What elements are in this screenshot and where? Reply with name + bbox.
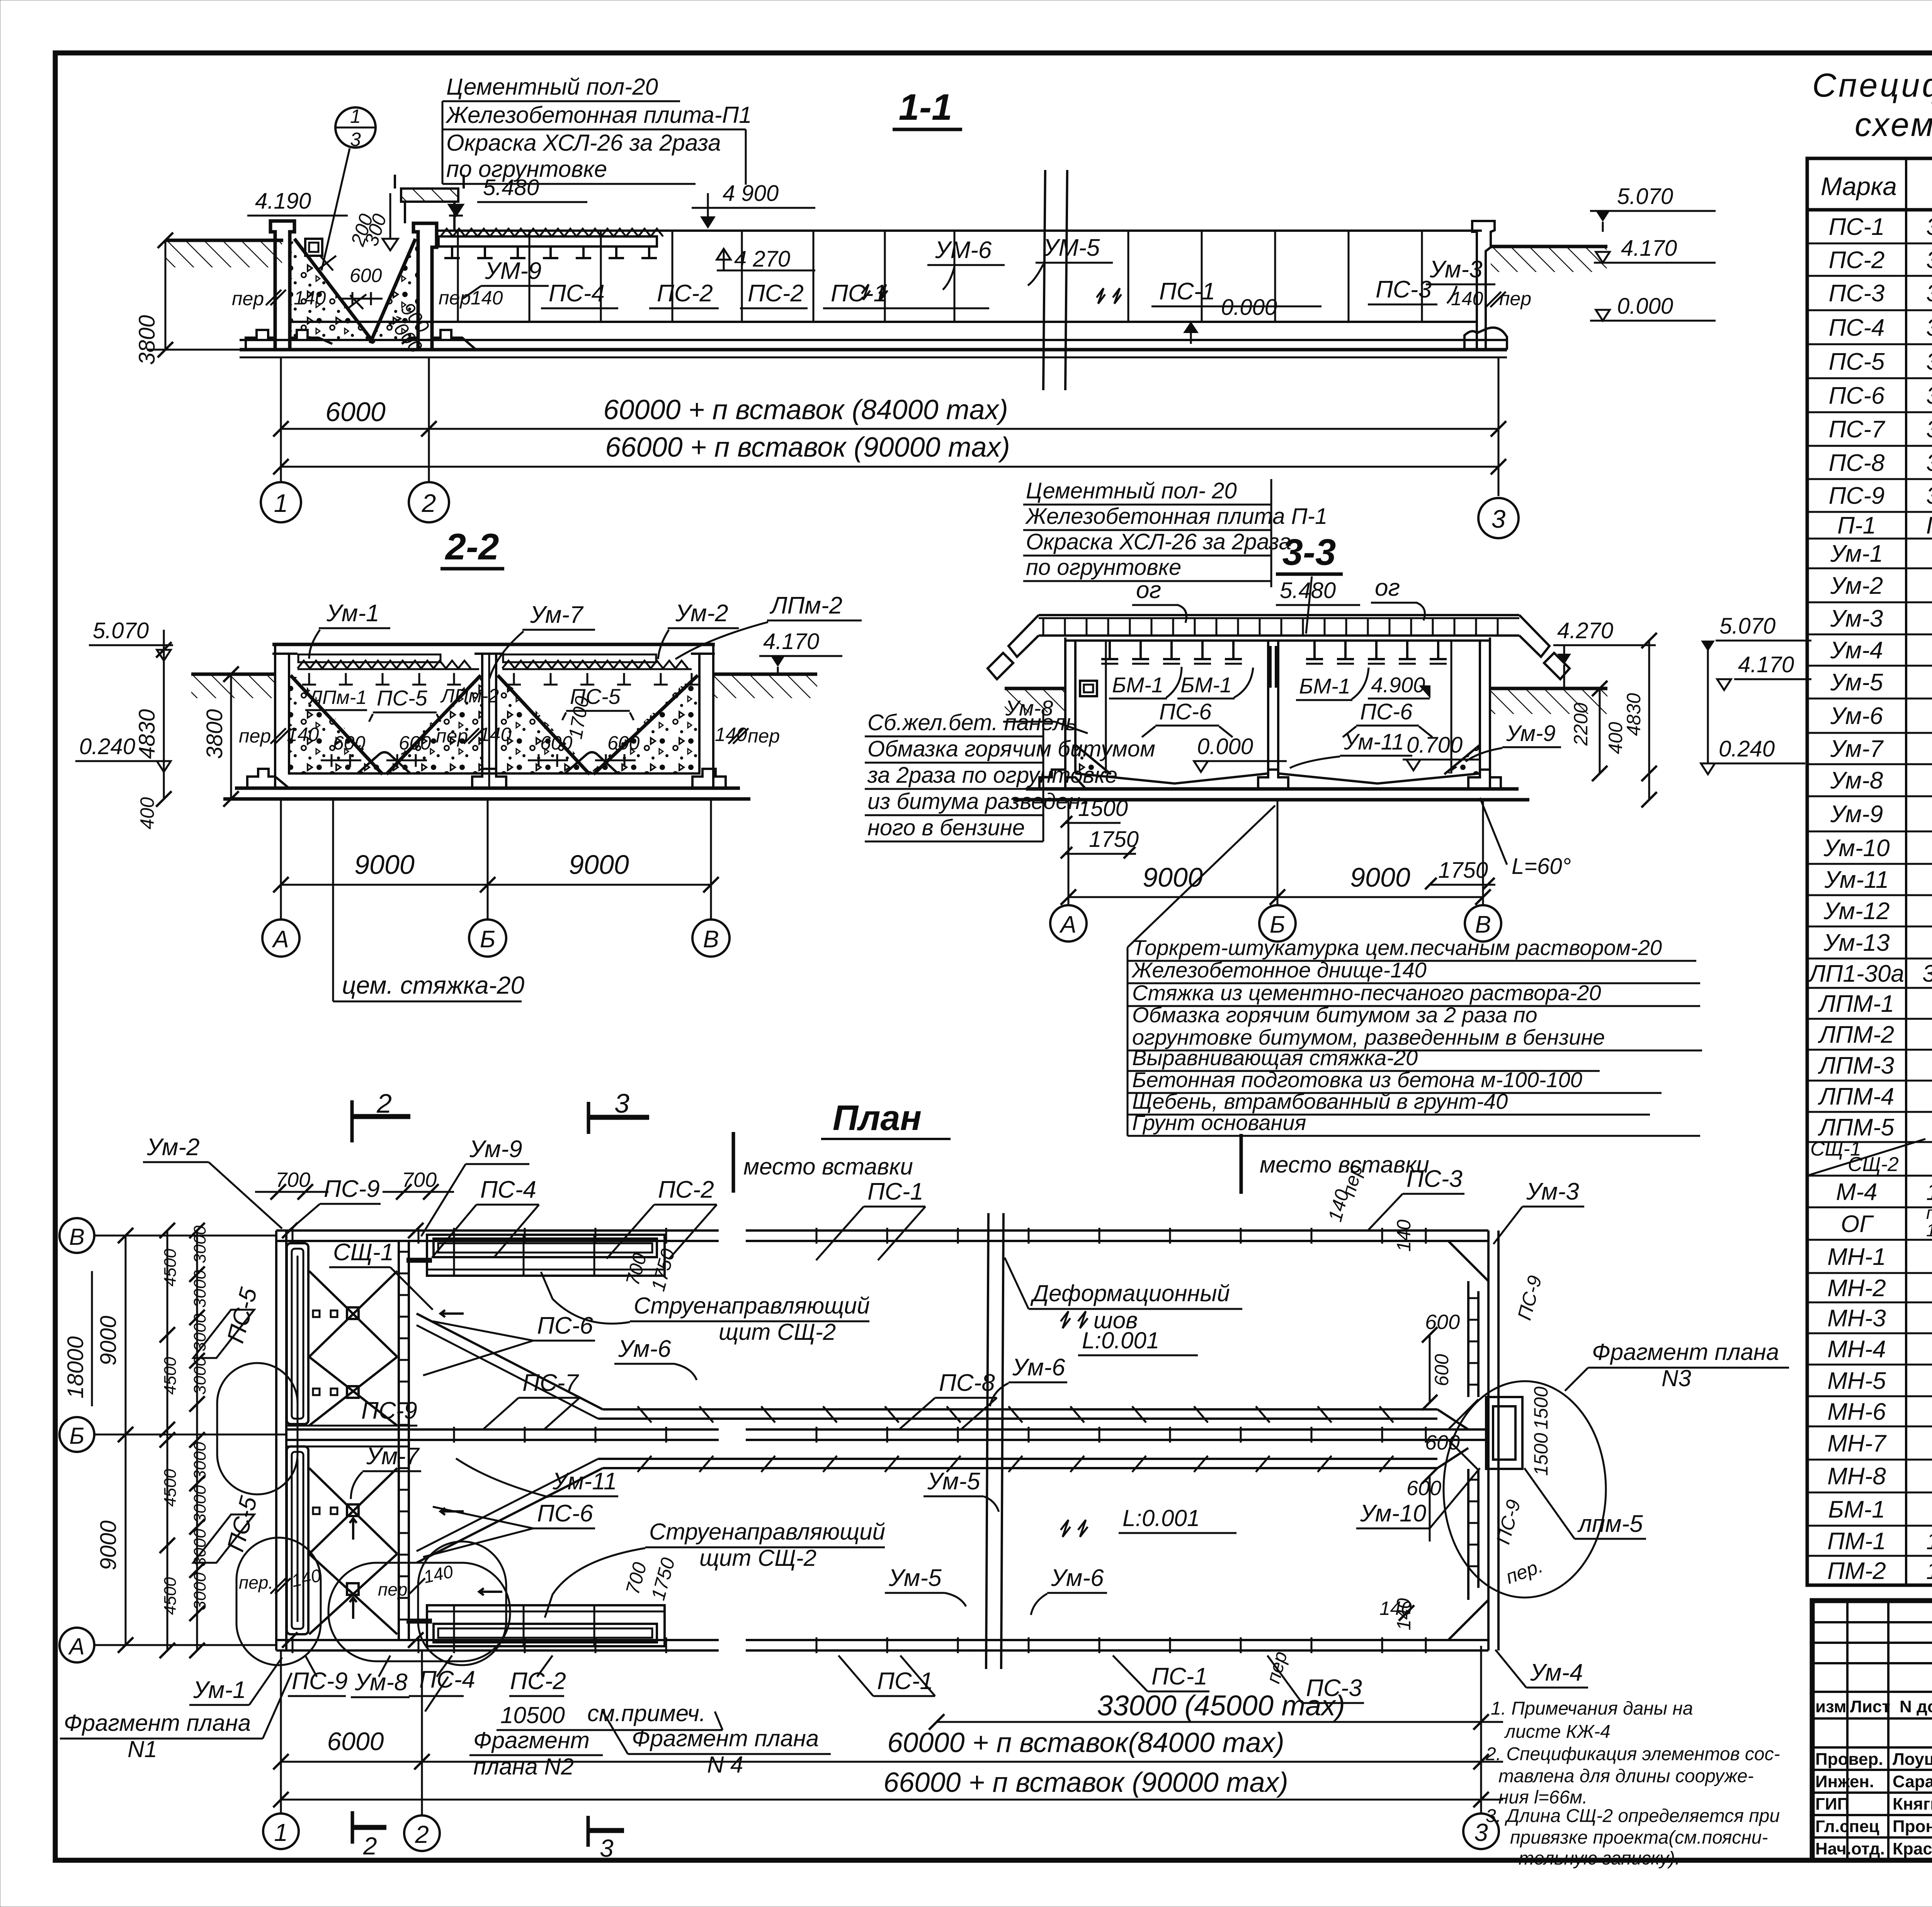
plan axis circles 1 and 2 xyxy=(263,1650,440,1851)
svg-text:140: 140 xyxy=(287,724,319,745)
table row Ум-8 xyxy=(1830,767,1932,794)
2-2 elevation 4.170 right xyxy=(759,629,842,675)
table row ЛПМ-2 xyxy=(1818,1021,1932,1048)
table row МН-6 xyxy=(1827,1399,1932,1425)
table row ПС-7 xyxy=(1829,416,1932,443)
plan small dims near SCh rect ends xyxy=(622,1246,679,1603)
table row Ум-11 xyxy=(1824,867,1932,893)
table row ПМ-1 xyxy=(1827,1521,1932,1556)
table row Ум-9 xyxy=(1830,801,1932,828)
floor layers list xyxy=(1128,806,1702,1136)
svg-text:3000: 3000 xyxy=(190,1529,209,1567)
svg-text:П-1: П-1 xyxy=(1837,512,1876,539)
svg-text:Ум-2: Ум-2 xyxy=(1830,573,1883,599)
svg-text:ПС-6: ПС-6 xyxy=(537,1312,593,1339)
svg-text:Фрагмент плана: Фрагмент плана xyxy=(1592,1339,1779,1365)
svg-text:ПС-2: ПС-2 xyxy=(748,280,804,307)
svg-text:ЛПм-1: ЛПм-1 xyxy=(308,687,367,708)
svg-text:ОГ: ОГ xyxy=(1841,1211,1874,1237)
svg-text:9000: 9000 xyxy=(354,850,415,880)
svg-text:по огрунтовке: по огрунтовке xyxy=(1026,555,1181,580)
svg-text:3.900-2: 3.900-2 xyxy=(1926,280,1932,307)
svg-text:140: 140 xyxy=(1393,1219,1415,1252)
svg-text:пер: пер xyxy=(439,287,471,309)
table row Ум-3 xyxy=(1830,605,1932,632)
plan right inner ladder walls xyxy=(1468,1281,1478,1600)
svg-text:ПС-1: ПС-1 xyxy=(867,1178,923,1205)
svg-text:4.270: 4.270 xyxy=(1557,618,1613,643)
svg-text:3.900-2 Вып.6: 3.900-2 Вып.6 xyxy=(1922,960,1932,987)
3-3 bottom small dims xyxy=(1061,796,1571,889)
plan bottom dimension lines xyxy=(273,1689,1503,1807)
svg-text:плана N2: плана N2 xyxy=(473,1754,574,1780)
svg-text:ЛПМ-3: ЛПМ-3 xyxy=(1818,1052,1894,1079)
table row ЛПМ-3 xyxy=(1818,1052,1932,1079)
2-2 floor and base slab xyxy=(223,769,750,799)
svg-text:ог: ог xyxy=(1375,574,1400,601)
svg-text:ПС-5: ПС-5 xyxy=(377,686,428,710)
svg-text:ЛПМ-5: ЛПМ-5 xyxy=(1818,1114,1895,1141)
svg-text:МН-4: МН-4 xyxy=(1827,1336,1886,1363)
svg-text:3. Длина СЩ-2 определяется при: 3. Длина СЩ-2 определяется при xyxy=(1486,1806,1780,1826)
left outer wall xyxy=(270,221,322,350)
table row ПС-4 xyxy=(1829,314,1932,341)
svg-text:Грунт основания: Грунт основания xyxy=(1132,1110,1306,1135)
plan bottom labels xyxy=(60,1649,1588,1780)
svg-text:140: 140 xyxy=(1379,1598,1412,1619)
serrated top plate with supports xyxy=(439,229,663,258)
svg-text:Бетонная подготовка из бетона: Бетонная подготовка из бетона м-100-100 xyxy=(1132,1067,1582,1092)
left compartment hopper slopes with concrete fill xyxy=(291,239,418,343)
plan lower basin labels xyxy=(351,1443,1646,1618)
svg-text:МН-8: МН-8 xyxy=(1827,1463,1886,1490)
svg-text:пер: пер xyxy=(436,725,468,747)
svg-text:ПС-5: ПС-5 xyxy=(222,1285,262,1346)
svg-text:4.170: 4.170 xyxy=(1621,236,1677,261)
svg-text:ПС-1: ПС-1 xyxy=(1151,1663,1207,1690)
svg-text:ПС-3: ПС-3 xyxy=(1306,1675,1362,1701)
svg-text:Ум-7: Ум-7 xyxy=(1830,736,1884,762)
table header row xyxy=(1821,163,1932,210)
svg-text:1: 1 xyxy=(350,105,361,127)
table row ПС-3 xyxy=(1829,280,1932,307)
svg-text:ЛПМ-4: ЛПМ-4 xyxy=(1818,1083,1894,1110)
svg-text:ПС-9: ПС-9 xyxy=(324,1176,380,1202)
svg-text:ПС-6: ПС-6 xyxy=(1360,699,1413,724)
panel note text block right of 2-2 xyxy=(865,710,1155,841)
left ground line with hatch xyxy=(166,240,283,267)
svg-text:пер: пер xyxy=(1499,288,1531,309)
svg-text:Ум-3: Ум-3 xyxy=(1830,605,1883,632)
svg-text:1500: 1500 xyxy=(1530,1387,1552,1429)
svg-text:Ум-8: Ум-8 xyxy=(1830,767,1883,794)
svg-text:ПС-8: ПС-8 xyxy=(939,1370,995,1396)
svg-text:Стяжка из цементно-песчаного р: Стяжка из цементно-песчаного раствора-20 xyxy=(1132,981,1601,1005)
plan top labels xyxy=(143,1134,1584,1260)
svg-text:ЛПм-2: ЛПм-2 xyxy=(440,685,499,707)
svg-text:МН-3: МН-3 xyxy=(1827,1305,1886,1332)
svg-text:2. Спецификация элементов сос-: 2. Спецификация элементов сос- xyxy=(1485,1744,1780,1764)
svg-text:N докум: N докум xyxy=(1900,1697,1932,1716)
svg-text:1. Примечания даны на: 1. Примечания даны на xyxy=(1491,1698,1693,1719)
table row Ум-4 xyxy=(1830,637,1932,664)
2-2 serrated launders xyxy=(298,654,692,669)
table row Ум-10 xyxy=(1823,835,1932,862)
svg-text:Ум-1: Ум-1 xyxy=(326,600,379,627)
svg-text:ог: ог xyxy=(1136,577,1161,603)
svg-text:9000: 9000 xyxy=(1350,862,1410,892)
plan bottom section marks 2 and 3 xyxy=(352,1811,624,1862)
svg-text:пер: пер xyxy=(748,725,780,747)
svg-text:5.070: 5.070 xyxy=(1617,184,1673,209)
2-2 ground left xyxy=(191,674,275,698)
svg-text:9000: 9000 xyxy=(96,1520,121,1570)
section 1-1 title xyxy=(893,87,962,129)
svg-text:Ум-4: Ум-4 xyxy=(1530,1659,1583,1686)
svg-text:3000: 3000 xyxy=(190,1572,209,1610)
table row БМ-1 xyxy=(1828,1489,1932,1526)
svg-text:Железобетонная плита П-1: Железобетонная плита П-1 xyxy=(1025,504,1327,529)
plan title xyxy=(821,1098,951,1139)
table row Ум-13 xyxy=(1823,930,1932,956)
svg-text:66000 + п вставок (90000 max): 66000 + п вставок (90000 max) xyxy=(883,1767,1288,1798)
right ground line with hatch xyxy=(1491,246,1607,272)
svg-text:УМ-9: УМ-9 xyxy=(485,258,541,284)
svg-text:60000 + п вставок(84000 max): 60000 + п вставок(84000 max) xyxy=(887,1727,1284,1758)
svg-text:Ум-1: Ум-1 xyxy=(193,1677,246,1703)
svg-text:ПС-3: ПС-3 xyxy=(1829,280,1885,307)
plan corner diagonals xyxy=(1448,1241,1488,1640)
svg-text:3.900-2: 3.900-2 xyxy=(1926,416,1932,443)
2-2 tank outline walls xyxy=(272,644,715,788)
svg-text:5.480: 5.480 xyxy=(483,175,539,200)
plan wall joint ticks xyxy=(282,1223,1426,1653)
svg-text:Обмазка горячим битумом за 2 р: Обмазка горячим битумом за 2 раза по xyxy=(1132,1003,1537,1027)
svg-text:600: 600 xyxy=(333,732,366,754)
1-1 dimension lines xyxy=(261,357,1519,538)
svg-text:Выравнивающая стяжка-20: Выравнивающая стяжка-20 xyxy=(1132,1045,1418,1070)
svg-text:пер: пер xyxy=(239,725,271,747)
svg-text:Марка: Марка xyxy=(1821,172,1897,201)
table row Ум-7 xyxy=(1830,736,1932,762)
svg-text:1: 1 xyxy=(274,489,288,517)
svg-text:ПС-5: ПС-5 xyxy=(1829,348,1885,375)
table row Ум-12 xyxy=(1823,898,1932,925)
2-2 ground right xyxy=(713,674,817,698)
right wall xyxy=(1464,221,1507,350)
svg-text:СЩ-1: СЩ-1 xyxy=(333,1239,394,1266)
svg-text:Ум-10: Ум-10 xyxy=(1823,835,1889,862)
table row ОГ xyxy=(1841,1203,1932,1240)
svg-text:3: 3 xyxy=(614,1088,629,1118)
svg-text:тавлена для длины сооруже-: тавлена для длины сооруже- xyxy=(1498,1766,1754,1786)
svg-text:N3: N3 xyxy=(1662,1365,1691,1391)
svg-text:Фрагмент: Фрагмент xyxy=(473,1727,590,1753)
plan flow shields SCh-2 rectangles xyxy=(427,1235,665,1646)
svg-text:В: В xyxy=(703,926,719,953)
svg-text:1.459-2: 1.459-2 xyxy=(1926,1179,1932,1205)
svg-text:пер: пер xyxy=(378,1579,407,1599)
svg-text:Ум-2: Ум-2 xyxy=(675,600,728,627)
plan right 600 dims xyxy=(1379,1219,1552,1630)
svg-text:ПМ-2: ПМ-2 xyxy=(1827,1558,1886,1584)
elevation 4.190 xyxy=(247,189,398,250)
svg-text:N1: N1 xyxy=(128,1736,157,1762)
svg-text:4.900: 4.900 xyxy=(1371,673,1425,697)
plan small per/140 labels bottom xyxy=(239,1561,455,1599)
svg-text:Деформационный: Деформационный xyxy=(1030,1280,1230,1306)
table row М-4 xyxy=(1836,1179,1932,1205)
svg-text:ного в бензине: ного в бензине xyxy=(867,815,1025,840)
plan basin interior walls xyxy=(417,1314,1468,1563)
svg-text:ЛПМ-2: ЛПМ-2 xyxy=(1818,1021,1894,1048)
svg-text:1750: 1750 xyxy=(647,1555,679,1603)
plan fragment ellipses xyxy=(217,1363,510,1665)
table row МН-4 xyxy=(1827,1336,1932,1363)
svg-text:ния l=66м.: ния l=66м. xyxy=(1498,1787,1587,1808)
svg-text:ПМ-1: ПМ-1 xyxy=(1827,1528,1886,1555)
plan left vertical dimension lines xyxy=(63,1223,209,1658)
svg-text:Торкрет-штукатурка цем.песчаны: Торкрет-штукатурка цем.песчаным растворо… xyxy=(1132,935,1662,960)
svg-text:ПС-9: ПС-9 xyxy=(361,1397,417,1424)
plan outer walls xyxy=(276,1231,1498,1650)
svg-text:пер: пер xyxy=(232,288,264,309)
svg-text:Струенаправляющий: Струенаправляющий xyxy=(649,1519,885,1545)
section 3-3 title xyxy=(1276,532,1360,605)
svg-text:3: 3 xyxy=(350,129,361,150)
table row МН-3 xyxy=(1827,1305,1932,1332)
svg-text:изм: изм xyxy=(1815,1697,1846,1716)
svg-text:140: 140 xyxy=(422,1561,455,1587)
svg-text:600: 600 xyxy=(399,732,431,754)
svg-text:ПС-1: ПС-1 xyxy=(1159,278,1215,305)
svg-text:3-3: 3-3 xyxy=(1282,532,1336,573)
table row СЩ xyxy=(1807,1136,1932,1176)
svg-text:Фрагмент плана: Фрагмент плана xyxy=(64,1710,251,1736)
svg-text:2: 2 xyxy=(376,1088,392,1118)
svg-text:ПК-01-88: ПК-01-88 xyxy=(1926,512,1932,539)
table row МН-7 xyxy=(1827,1430,1932,1457)
plan outlet box right xyxy=(1444,1381,1606,1598)
svg-text:Гл.спец: Гл.спец xyxy=(1815,1817,1879,1836)
svg-text:3000: 3000 xyxy=(190,1442,209,1480)
svg-text:БМ-1: БМ-1 xyxy=(1828,1496,1885,1523)
og labels xyxy=(1132,574,1425,634)
svg-text:60000 + п вставок (84000 max): 60000 + п вставок (84000 max) xyxy=(603,394,1008,425)
elevation 4.900 xyxy=(692,181,815,229)
table row МН-2 xyxy=(1827,1275,1932,1302)
svg-text:Красавин: Красавин xyxy=(1893,1839,1932,1858)
3-3 roof slab with tiles xyxy=(988,615,1570,679)
svg-text:140: 140 xyxy=(294,287,326,309)
plan left block ladder wall xyxy=(399,1241,409,1640)
svg-text:Ум-11: Ум-11 xyxy=(552,1468,617,1495)
svg-text:Ум-5: Ум-5 xyxy=(888,1565,942,1591)
svg-text:Окраска ХСЛ-26 за 2раза: Окраска ХСЛ-26 за 2раза xyxy=(1026,529,1291,554)
svg-text:ПС-8: ПС-8 xyxy=(1829,450,1885,476)
svg-text:ПС-2: ПС-2 xyxy=(1829,247,1885,274)
svg-text:0.000: 0.000 xyxy=(1617,294,1673,319)
3-3 axis dims and circles xyxy=(1050,800,1501,942)
table row МН-8 xyxy=(1827,1463,1932,1490)
table row ПС-2 xyxy=(1829,247,1932,274)
svg-text:ПС-1: ПС-1 xyxy=(877,1668,933,1695)
table row ПС-1 xyxy=(1829,206,1932,243)
svg-text:Ум-9: Ум-9 xyxy=(1830,801,1883,828)
svg-text:Ум-13: Ум-13 xyxy=(1823,930,1889,956)
3-3 interior labels xyxy=(1003,667,1561,772)
svg-text:1500: 1500 xyxy=(1530,1433,1552,1476)
2-2 inner small dims xyxy=(239,694,780,767)
svg-text:4830: 4830 xyxy=(134,709,160,759)
second wall xyxy=(413,223,437,350)
svg-text:ПС-3: ПС-3 xyxy=(1376,276,1432,303)
svg-text:Саранча: Саранча xyxy=(1893,1772,1932,1791)
svg-text:Инжен.: Инжен. xyxy=(1815,1772,1874,1791)
svg-text:Ум-2: Ум-2 xyxy=(146,1134,200,1161)
plan right fragment label xyxy=(1565,1339,1789,1391)
svg-text:ЛПМ-1: ЛПМ-1 xyxy=(1818,991,1894,1017)
plan section marks 2 and 3 top xyxy=(352,1088,649,1142)
svg-text:ПС-4: ПС-4 xyxy=(549,280,605,307)
svg-text:10500: 10500 xyxy=(500,1702,565,1728)
svg-text:3000: 3000 xyxy=(190,1270,209,1308)
2-2 elevation 5.070 left xyxy=(89,618,173,661)
svg-text:2: 2 xyxy=(415,1820,429,1848)
svg-text:ПС-4: ПС-4 xyxy=(1829,314,1885,341)
table row ПМ-2 xyxy=(1827,1558,1932,1584)
svg-text:3.900-2: 3.900-2 xyxy=(1926,348,1932,375)
table row Ум-2 xyxy=(1830,573,1932,599)
cem styazhka label xyxy=(333,800,524,1001)
svg-text:ПС-5: ПС-5 xyxy=(570,684,621,709)
место вставки labels xyxy=(733,1132,1429,1194)
svg-text:0.700: 0.700 xyxy=(1406,733,1463,758)
svg-text:ПС-4: ПС-4 xyxy=(480,1176,536,1203)
vertical dim 3800 left xyxy=(134,233,247,365)
svg-text:Ум-8: Ум-8 xyxy=(1005,696,1053,720)
svg-text:Струенаправляющий: Струенаправляющий xyxy=(634,1293,870,1319)
3-3 ceiling and hanging beams xyxy=(1065,641,1490,664)
svg-text:ПС-6: ПС-6 xyxy=(1829,382,1885,409)
svg-text:2: 2 xyxy=(422,489,436,517)
svg-text:ПС-2: ПС-2 xyxy=(657,280,713,307)
svg-text:А: А xyxy=(68,1633,85,1659)
plan break lines deformation joint xyxy=(986,1213,1088,1669)
svg-text:схеме, расположенной на листе: схеме, расположенной на листе xyxy=(1855,106,1932,143)
tank floor and base slab xyxy=(240,322,1507,357)
svg-text:9000: 9000 xyxy=(96,1316,121,1365)
svg-text:2-2: 2-2 xyxy=(445,526,499,568)
3-3 floor and base xyxy=(1013,745,1529,800)
svg-text:0.000: 0.000 xyxy=(1197,734,1253,759)
svg-text:СЩ-2: СЩ-2 xyxy=(1848,1153,1899,1176)
svg-text:5.070: 5.070 xyxy=(93,618,149,643)
svg-text:Ум-4: Ум-4 xyxy=(1830,637,1883,664)
table row ПС-6 xyxy=(1829,382,1932,409)
svg-text:БМ-1: БМ-1 xyxy=(1112,673,1163,697)
axis circle 3 (plan bottom) xyxy=(1463,1646,1499,1849)
2-2 left vertical dims xyxy=(75,642,239,829)
svg-text:3: 3 xyxy=(1474,1819,1488,1846)
svg-text:Нач.отд.: Нач.отд. xyxy=(1815,1839,1885,1858)
section 2-2 title xyxy=(440,526,504,569)
tank top line and panel joints xyxy=(437,231,1482,322)
svg-text:А: А xyxy=(1059,911,1076,938)
svg-text:4500: 4500 xyxy=(161,1469,180,1507)
svg-text:400: 400 xyxy=(136,797,158,829)
table row ЛП1-30а xyxy=(1808,953,1932,988)
plan flow guide shields X lower xyxy=(309,1468,502,1634)
svg-text:Ум-6: Ум-6 xyxy=(1051,1565,1104,1591)
walkway structure above xyxy=(395,175,464,232)
svg-text:1.459-2: 1.459-2 xyxy=(1926,1528,1932,1555)
svg-text:щит СЩ-2: щит СЩ-2 xyxy=(719,1319,836,1345)
svg-text:N 4: N 4 xyxy=(707,1752,743,1778)
svg-text:2: 2 xyxy=(363,1832,377,1860)
svg-text:Цементный пол- 20: Цементный пол- 20 xyxy=(1026,478,1237,503)
svg-text:Провер.: Провер. xyxy=(1815,1750,1883,1769)
notes 1-3 xyxy=(1485,1698,1780,1869)
right elevation marks xyxy=(1590,184,1716,321)
svg-text:600: 600 xyxy=(1425,1310,1460,1334)
svg-text:В: В xyxy=(1475,911,1491,938)
svg-text:Б: Б xyxy=(1270,911,1285,938)
svg-text:Железобетонная плита-П1: Железобетонная плита-П1 xyxy=(445,102,752,128)
specification table title xyxy=(1812,67,1932,143)
svg-text:2200: 2200 xyxy=(1570,703,1592,746)
table row МН-1 xyxy=(1827,1236,1932,1273)
svg-text:4500: 4500 xyxy=(161,1249,180,1287)
table row П-1 xyxy=(1837,505,1932,539)
3-3 ground right xyxy=(1490,688,1607,714)
svg-text:БМ-1: БМ-1 xyxy=(1180,673,1232,697)
svg-text:МН-7: МН-7 xyxy=(1827,1430,1887,1457)
2-2 hopper slopes and fill xyxy=(289,675,699,774)
3-3 walls xyxy=(1065,637,1490,789)
svg-text:ЛП1-30а: ЛП1-30а xyxy=(1808,960,1904,987)
svg-text:План: План xyxy=(833,1098,922,1138)
svg-text:3000: 3000 xyxy=(190,1485,209,1523)
svg-text:ПС-2: ПС-2 xyxy=(510,1668,566,1695)
svg-text:9000: 9000 xyxy=(569,850,629,880)
panel labels in 1-1 xyxy=(462,235,1531,309)
svg-text:3000: 3000 xyxy=(190,1225,209,1263)
section 1-1 top material notes xyxy=(442,74,752,185)
svg-text:ПС-9: ПС-9 xyxy=(1829,483,1885,509)
svg-text:ПС-9: ПС-9 xyxy=(292,1668,348,1695)
svg-text:ПС-9: ПС-9 xyxy=(1514,1273,1546,1322)
svg-text:УМ-5: УМ-5 xyxy=(1043,235,1100,261)
svg-text:цем. стяжка-20: цем. стяжка-20 xyxy=(342,971,524,999)
svg-text:3800: 3800 xyxy=(202,709,227,759)
svg-text:Б: Б xyxy=(480,926,495,953)
title block texts xyxy=(1815,1607,1932,1861)
table row Ум-5 xyxy=(1830,669,1932,696)
table row ЛПМ-1 xyxy=(1818,983,1932,1019)
svg-text:ПС-3: ПС-3 xyxy=(1406,1166,1463,1192)
svg-text:ПС-6: ПС-6 xyxy=(1159,699,1212,724)
svg-text:Ум-7: Ум-7 xyxy=(366,1443,420,1470)
svg-text:М-4: М-4 xyxy=(1836,1179,1878,1205)
svg-text:Ум-6: Ум-6 xyxy=(618,1336,671,1362)
svg-text:9000: 9000 xyxy=(1143,862,1203,892)
plan left block edges xyxy=(286,1260,432,1621)
2-2 axis dims and circles xyxy=(262,799,730,957)
svg-text:66000 + п вставок (90000 max): 66000 + п вставок (90000 max) xyxy=(605,432,1010,463)
title block (stamp) xyxy=(1812,1601,1932,1860)
svg-text:L:0.001: L:0.001 xyxy=(1082,1327,1159,1353)
